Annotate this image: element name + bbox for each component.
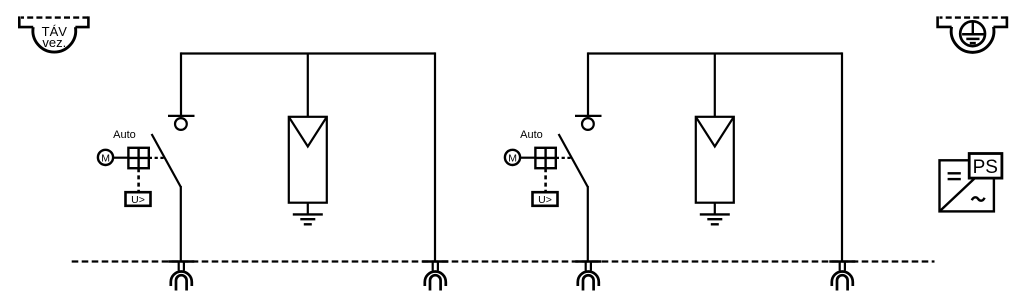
fork outer arc xyxy=(425,272,446,287)
disconnector fixed contact circle xyxy=(175,118,187,130)
power supply converter box xyxy=(940,160,994,211)
earth collector right bracket xyxy=(994,16,1007,27)
motor operator M circle xyxy=(505,150,520,165)
svg-text:Auto: Auto xyxy=(520,129,543,141)
earth collector symbol dashed top xyxy=(940,16,1008,18)
svg-text:PS: PS xyxy=(973,157,998,178)
disconnector fixed contact circle xyxy=(582,118,594,130)
disconnector tick bar xyxy=(168,115,195,117)
ac sign ~ xyxy=(972,197,985,200)
earth collector left bracket xyxy=(938,16,952,27)
wire: M to actuator box xyxy=(113,157,128,159)
surge arrester body xyxy=(289,117,327,203)
earth stem xyxy=(972,22,974,34)
svg-text:Auto: Auto xyxy=(113,129,136,141)
wire: below switch to bus xyxy=(587,186,589,262)
converter diagonal xyxy=(940,160,994,211)
disconnector blade xyxy=(152,134,181,187)
fork outer arc xyxy=(171,272,192,287)
bus connection bar at x=588.3 xyxy=(575,260,601,262)
fork inner arc xyxy=(583,275,594,290)
remote line symbol left bracket xyxy=(19,16,33,27)
wire: left drop to disconnector xyxy=(180,52,182,117)
wire: arrester drop xyxy=(714,54,716,117)
feeder bay 2 top wire xyxy=(588,52,842,54)
svg-text:U>: U> xyxy=(538,194,552,206)
protective earth circle xyxy=(960,21,985,46)
motor operator M circle xyxy=(98,150,113,165)
earth bar 2 xyxy=(966,38,979,41)
remote line symbol arc xyxy=(33,27,76,52)
wire: below switch to bus xyxy=(180,186,182,262)
fork link stems xyxy=(432,262,434,271)
fork link stems xyxy=(839,262,841,271)
dashed link to release xyxy=(137,168,140,192)
disconnector tick bar xyxy=(575,115,602,117)
dashed mechanical link to blade xyxy=(149,157,166,159)
remote line symbol TAV vez dashed top xyxy=(21,16,88,18)
svg-text:vez.: vez. xyxy=(42,35,66,50)
svg-text:U>: U> xyxy=(131,194,145,206)
bus connection bar at x=842.3 xyxy=(829,260,855,262)
fork outer arc xyxy=(832,272,853,287)
fork inner arc xyxy=(837,275,848,290)
bus connection bar at x=435.3 xyxy=(422,260,448,262)
bus connection bar at x=181.3 xyxy=(168,260,194,262)
ground symbol xyxy=(700,213,730,215)
dc sign = xyxy=(948,172,961,174)
arrester chevron xyxy=(696,117,734,147)
bottom bus dashed xyxy=(72,260,935,262)
earth collector arc xyxy=(951,27,994,52)
wire: M to actuator box xyxy=(520,157,535,159)
wire: arrester to ground xyxy=(307,203,309,215)
undervoltage release U> box xyxy=(126,192,151,206)
undervoltage release U> box xyxy=(533,192,558,206)
svg-text:M: M xyxy=(101,153,110,165)
wire: right drop to bus xyxy=(841,52,843,261)
remote line symbol right bracket xyxy=(75,16,88,27)
fork link stems xyxy=(178,262,180,271)
fork inner arc xyxy=(176,275,187,290)
actuator box (2x2) xyxy=(128,148,148,168)
arrester chevron xyxy=(289,117,327,147)
svg-text:M: M xyxy=(508,153,517,165)
PS label box xyxy=(969,154,1002,179)
wire: arrester to ground xyxy=(714,203,716,215)
ground symbol xyxy=(293,213,323,215)
dashed mechanical link to blade xyxy=(556,157,573,159)
wire: right drop to bus xyxy=(434,52,436,261)
disconnector blade xyxy=(559,134,588,187)
dashed link to release xyxy=(544,168,547,192)
fork outer arc xyxy=(578,272,599,287)
wire: left drop to disconnector xyxy=(587,52,589,117)
earth bar 3 xyxy=(970,42,976,45)
fork inner arc xyxy=(430,275,441,290)
wire: arrester drop xyxy=(307,54,309,117)
earth bar 1 xyxy=(962,33,984,36)
fork link stems xyxy=(585,262,587,271)
actuator box (2x2) xyxy=(535,148,555,168)
surge arrester body xyxy=(696,117,734,203)
feeder bay 1 top wire xyxy=(181,52,435,54)
